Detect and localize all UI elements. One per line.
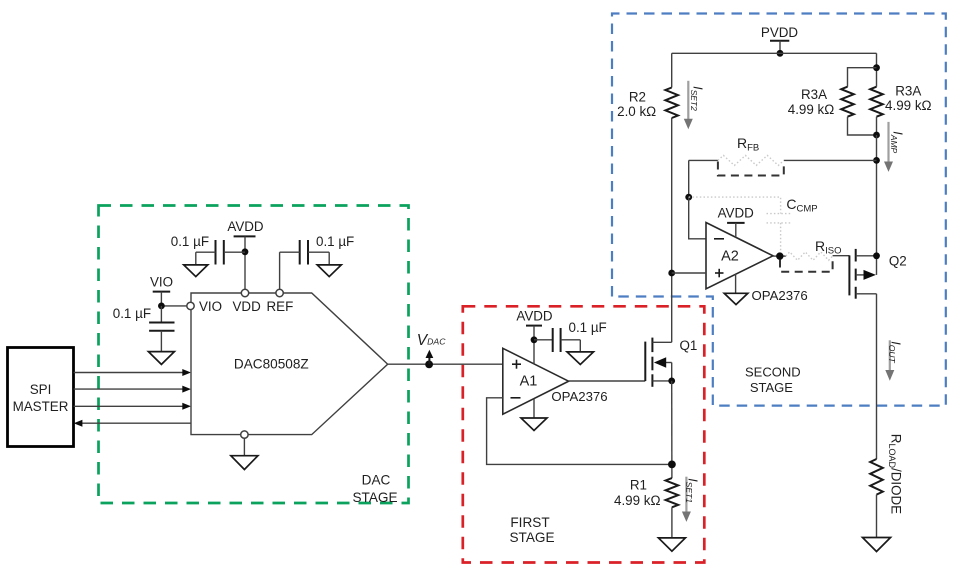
wire R3A left leg bottom (848, 117, 877, 135)
current arrow ISET2 (684, 81, 705, 129)
A1 minus input mark (511, 397, 521, 399)
svg-text:0.1 µF: 0.1 µF (316, 234, 354, 249)
ground (REF cap) (317, 265, 341, 277)
ground (A1) (521, 418, 547, 431)
wire PVDD rail (672, 52, 877, 54)
junction dot Q2 drain (873, 252, 880, 259)
junction dot VIO (158, 303, 165, 310)
svg-text:SECOND: SECOND (745, 364, 801, 379)
ground (R1) (658, 538, 685, 551)
svg-text:A2: A2 (721, 249, 739, 265)
transistor Q1 (645, 338, 697, 387)
wire feedback node to A2 minus input (689, 197, 706, 239)
resistor RFB (optional, dotted) (689, 135, 877, 175)
wire Q1 source down to R1 (671, 381, 673, 478)
AVDD supply (DAC stage) (227, 219, 264, 289)
resistor RLOAD/DIODE (870, 434, 903, 514)
FIRST STAGE label (509, 515, 554, 545)
AVDD supply (A2) (718, 205, 755, 237)
capacitor 0.1uF (VIO) (113, 306, 175, 352)
pin circle DAC GND (241, 431, 248, 438)
capacitor 0.1uF (A1) (534, 320, 607, 352)
A1 ground stem (533, 399, 535, 418)
junction dot feedback node (668, 461, 676, 469)
junction dot A2 +input tap (668, 270, 675, 277)
svg-text:REF: REF (267, 299, 294, 314)
junction dot PVDD (777, 50, 784, 57)
A1 output wire to Q1 gate (569, 380, 646, 382)
wire R3A bottom down to Q2 drain (876, 135, 878, 256)
FIRST STAGE dashed red box (463, 306, 705, 562)
current arrow ISET1 (682, 477, 700, 522)
svg-text:STAGE: STAGE (352, 490, 397, 505)
ground (AVDD left cap) (184, 265, 208, 277)
resistor R3A (right) (870, 84, 931, 117)
AVDD supply (A1) (516, 309, 553, 364)
svg-text:FIRST: FIRST (510, 515, 549, 530)
SPI bus wire 4 (readback) (74, 420, 191, 427)
svg-text:AVDD: AVDD (227, 219, 264, 234)
svg-text:OPA2376: OPA2376 (752, 288, 808, 303)
DAC80508Z body (191, 293, 388, 435)
SPI bus wire 1 (74, 369, 191, 376)
DAC STAGE dashed green box (99, 206, 409, 504)
op-amp A1 (503, 348, 569, 414)
VIO supply (150, 275, 187, 306)
junction dot A2 output (776, 252, 783, 259)
junction dot AVDD/cap (242, 248, 249, 255)
svg-text:4.99 kΩ: 4.99 kΩ (614, 493, 661, 508)
wire A2 plus input (672, 272, 706, 274)
junction dot RFB right (873, 157, 880, 164)
junction dot A1 supply (531, 336, 538, 343)
svg-text:OPA2376: OPA2376 (551, 389, 607, 404)
wire RFB left leg down to feedback node (688, 160, 690, 197)
svg-text:PVDD: PVDD (761, 25, 799, 40)
current arrow IOUT (885, 340, 902, 380)
svg-text:SPI: SPI (30, 382, 52, 397)
wire Q2 source down to RLOAD (876, 294, 878, 459)
svg-text:Q2: Q2 (889, 253, 907, 268)
svg-text:0.1 µF: 0.1 µF (569, 320, 607, 335)
wire R3A right leg bottom (876, 117, 878, 135)
svg-text:AVDD: AVDD (718, 205, 755, 220)
SPI MASTER block (8, 348, 74, 447)
svg-text:Q1: Q1 (680, 338, 698, 353)
junction dot feedback node A2 (685, 194, 692, 201)
SPI bus wire 2 (74, 386, 191, 393)
svg-text:VDD: VDD (233, 299, 262, 314)
capacitor 0.1uF (REF) (280, 234, 355, 289)
PVDD supply (761, 25, 799, 53)
svg-text:A1: A1 (520, 374, 538, 390)
wire RISO to Q2 gate (833, 255, 850, 257)
DAC STAGE label (352, 472, 397, 505)
node VDAC (417, 332, 446, 368)
A2 ground stem (735, 274, 737, 293)
svg-text:DAC: DAC (362, 472, 391, 487)
svg-text:STAGE: STAGE (750, 380, 793, 395)
SECOND STAGE label (745, 364, 801, 394)
svg-text:DAC80508Z: DAC80508Z (234, 356, 309, 371)
svg-text:VIO: VIO (199, 299, 222, 314)
pin circle VDD (241, 289, 248, 296)
capacitor 0.1uF (AVDD left) (171, 234, 245, 265)
svg-text:4.99 kΩ: 4.99 kΩ (885, 98, 932, 113)
A2 plus input mark (715, 269, 724, 278)
svg-text:AVDD: AVDD (516, 309, 553, 324)
wire VDAC: DAC output to A1 + input (388, 363, 503, 365)
wire rail down to R3A pair (876, 53, 878, 86)
svg-text:R3A: R3A (801, 87, 827, 102)
current arrow IAMP (884, 122, 905, 172)
SECOND STAGE dashed blue box (612, 14, 946, 406)
svg-text:R2: R2 (629, 89, 646, 104)
A1 plus input mark (512, 360, 521, 369)
pin circle REF (276, 289, 283, 296)
A1 feedback wire (487, 398, 672, 465)
svg-text:R3A: R3A (895, 84, 921, 99)
svg-text:4.99 kΩ: 4.99 kΩ (788, 102, 835, 117)
resistor R3A (left) (788, 87, 854, 118)
wire RLOAD to ground (876, 495, 878, 538)
wire R1 to ground (671, 507, 673, 538)
svg-text:MASTER: MASTER (13, 399, 69, 414)
svg-text:2.0 kΩ: 2.0 kΩ (617, 104, 656, 119)
junction dot Q1 source (668, 378, 675, 385)
pin circle VIO (187, 302, 194, 309)
ground (RLOAD) (863, 538, 891, 552)
ground (A1 cap) (567, 352, 594, 365)
svg-text:VIO: VIO (150, 275, 173, 290)
svg-text:0.1 µF: 0.1 µF (171, 234, 209, 249)
wire R3A left leg top (848, 68, 877, 87)
op-amp A2 (706, 223, 773, 289)
svg-text:STAGE: STAGE (509, 530, 554, 545)
ground (A2) (724, 293, 748, 304)
wire R2 down to Q1 drain (671, 118, 673, 342)
svg-text:R1: R1 (630, 478, 647, 493)
resistor RISO (optional, dotted) (780, 238, 842, 272)
A2 minus input mark (714, 238, 724, 240)
resistor R2 (617, 88, 678, 120)
capacitor CCMP (optional, dotted) (689, 196, 818, 256)
ground (VIO cap) (148, 352, 174, 365)
A2 output wire (773, 255, 786, 257)
resistor R1 (614, 478, 678, 508)
junction dot R3A bottom (873, 132, 880, 139)
transistor Q2 (849, 249, 906, 299)
SPI bus wire 3 (74, 403, 191, 410)
junction dot R3A top (873, 64, 880, 71)
wire rail down to R2 (671, 53, 673, 87)
ground (DAC) (231, 456, 258, 470)
DAC ground stem (243, 438, 245, 455)
svg-text:0.1 µF: 0.1 µF (113, 306, 151, 321)
